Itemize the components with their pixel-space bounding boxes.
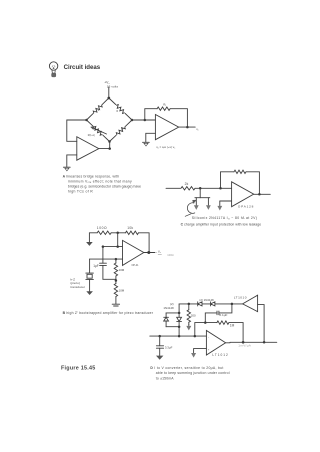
label hi-Z piezo transducer <box>70 277 85 289</box>
wire input rail circuit D <box>150 335 207 337</box>
svg-text:C charge amplifier input prot: C charge amplifier input protection with… <box>181 222 262 226</box>
svg-text:LT1010: LT1010 <box>234 295 247 299</box>
resistor 10k <box>126 231 139 234</box>
junction buffer input on output <box>263 341 266 344</box>
junction noninverting resistor top <box>115 258 118 261</box>
capacitor bottom wire to divider mid <box>103 265 116 279</box>
lightbulb icon <box>49 62 57 77</box>
resistor Rf feedback U2 <box>145 107 188 127</box>
resistor 10M lower <box>114 281 117 304</box>
junction bootstrap mid <box>115 279 118 282</box>
wire top rail <box>179 303 197 305</box>
wire clamp top bar <box>166 312 179 314</box>
label (2) 1N4148 clamp <box>163 302 174 310</box>
svg-text:10M: 10M <box>119 288 125 292</box>
JFET clamp bar <box>195 197 210 199</box>
junction feedback on output <box>242 341 245 344</box>
ground arrow U5 <box>191 353 196 358</box>
annotation curved arrow <box>187 200 197 213</box>
svg-text:2k: 2k <box>185 182 189 186</box>
junction clamp diodes <box>178 335 181 338</box>
wire bridge left to op-amp U1 inverting input <box>67 120 87 141</box>
caption A <box>63 174 142 193</box>
svg-text:1μF: 1μF <box>93 264 99 268</box>
junction inverting node <box>116 245 119 248</box>
wire noninverting line <box>90 258 123 260</box>
svg-text:B high Z′ bootstrapped amplif: B high Z′ bootstrapped amplifier for pie… <box>63 311 154 315</box>
wire summing junction to node F <box>195 323 206 337</box>
svg-text:OP-41: OP-41 <box>132 264 140 267</box>
junction 0.1uF top <box>231 303 234 306</box>
wire clamp to rails <box>178 304 180 336</box>
wire U5 noninverting to ground <box>194 349 207 353</box>
JFET right leg to ground <box>206 198 211 210</box>
svg-text:to ±150mA: to ±150mA <box>156 376 174 380</box>
JFET left leg to ground <box>194 198 199 210</box>
piezo transducer X1 <box>86 273 94 279</box>
wire U2 noninverting input to ground <box>146 133 156 142</box>
junction cap 3.3uF <box>158 335 161 338</box>
svg-text:LT1012: LT1012 <box>212 353 228 357</box>
svg-text:0.1μF: 0.1μF <box>219 313 227 317</box>
junction U3 output <box>258 193 261 196</box>
resistor 200 <box>187 304 190 325</box>
svg-text:transducer: transducer <box>70 285 85 289</box>
svg-text:R(1+x): R(1+x) <box>88 135 95 137</box>
wire U4 output <box>144 252 155 254</box>
capacitor 0.1uF <box>205 304 232 323</box>
op-amp U5 LT1012 <box>206 331 225 356</box>
ground arrow 200 <box>186 325 191 331</box>
svg-text:3.3μF: 3.3μF <box>165 346 173 350</box>
svg-text:1M: 1M <box>230 323 235 327</box>
ground arrow U3 input <box>217 201 222 211</box>
wire divider tap to U4 inverting input <box>117 233 119 247</box>
wire 10k to output node <box>139 233 150 253</box>
junction U4 output <box>147 251 150 254</box>
junction feedback node F <box>204 321 207 324</box>
svg-text:200: 200 <box>191 314 196 318</box>
op-amp U2 <box>155 115 178 140</box>
svg-text:high TCs of R: high TCs of R <box>68 189 93 193</box>
wire +Vs to bridge top <box>108 87 110 98</box>
wire bridge right to op-amp U2 inverting input <box>132 119 155 121</box>
wire U3 noninverting to ground <box>220 200 232 202</box>
label gain formula <box>156 145 175 150</box>
resistor 1M <box>205 321 243 342</box>
junction U2 output feedback <box>186 126 189 129</box>
ground top-left solid <box>86 242 93 246</box>
protection JFETs Q1 Q2 gate wire <box>199 188 201 197</box>
bridge arm resistor R lower-right <box>110 120 133 142</box>
op-amp U4 OP-41 <box>123 240 144 265</box>
node bridge left <box>85 119 88 122</box>
svg-text:100Ω: 100Ω <box>97 226 107 230</box>
svg-text:10M: 10M <box>119 268 125 272</box>
wire noninverting to piezo <box>89 259 91 273</box>
node +Vs supply label <box>104 80 118 88</box>
bridge arm resistor R top-left <box>87 98 109 120</box>
resistor 10M upper <box>114 259 117 280</box>
svg-text:Figure 15.45: Figure 15.45 <box>61 365 95 371</box>
strain gauge arrow <box>90 126 106 134</box>
svg-text:vo: vo <box>196 128 198 132</box>
wire U2 output Vo <box>179 126 196 128</box>
junction U1 output <box>108 147 111 150</box>
svg-text:1mV/μA: 1mV/μA <box>238 344 252 348</box>
wire U1 output to bridge bottom <box>99 142 110 149</box>
wire top-left to ground circuit B <box>89 233 97 242</box>
capacitor 1uF top wire <box>102 247 104 264</box>
ground cap solid <box>156 356 163 360</box>
junction clamp bottom <box>178 325 181 328</box>
junction U2 inverting node <box>144 119 147 122</box>
svg-text:Circuit ideas: Circuit ideas <box>64 64 101 71</box>
junction feedback node <box>219 187 222 190</box>
wire U3 output <box>254 193 271 195</box>
resistor 2k <box>181 187 195 190</box>
svg-text:bridges (e.g. semiconductor st: bridges (e.g. semiconductor strain gauge… <box>68 184 141 188</box>
junction cap top <box>102 245 105 248</box>
series diode D4 1N4148 <box>211 302 215 306</box>
wire to U3 inverting input <box>195 187 232 189</box>
node bridge right <box>131 119 134 122</box>
wire series diodes to buffer <box>215 303 243 305</box>
junction clamp top <box>178 312 181 315</box>
junction 200 resistor top <box>188 303 191 306</box>
node bridge top <box>107 97 110 100</box>
wire inverting line <box>103 246 123 248</box>
wire between divider resistors <box>111 232 126 234</box>
svg-text:vo = Rf/R (x/4) vs: vo = Rf/R (x/4) vs <box>156 145 175 150</box>
bridge arm strain gauge R(1+x) lower-left <box>87 120 110 142</box>
wire clamp bottom bar <box>166 326 179 328</box>
svg-text:-: - <box>208 335 209 339</box>
svg-text:OPA128: OPA128 <box>238 204 254 208</box>
svg-text:A linearises bridge response,: A linearises bridge response, with <box>63 174 120 178</box>
junction summing <box>194 335 197 338</box>
op-amp U3 OPA128 <box>232 182 254 207</box>
ground U2 <box>143 142 150 146</box>
wire U1 noninverting input to ground <box>67 155 77 167</box>
resistor 1000 <box>97 231 111 234</box>
leader line to Siliconix note <box>185 214 191 217</box>
svg-text:D I to V converter, sensitive: D I to V converter, sensitive to 20μA, b… <box>150 366 223 370</box>
svg-text:100Ω: 100Ω <box>167 253 173 257</box>
ground piezo solid <box>86 291 93 295</box>
wire U5 output <box>226 341 277 344</box>
wire LT1010 input from output line <box>258 305 265 343</box>
svg-text:(2) 1N4148: (2) 1N4148 <box>199 298 214 302</box>
node bridge bottom <box>108 140 111 143</box>
svg-text:able to keep summing junction: able to keep summing junction under cont… <box>156 371 230 375</box>
svg-text:minimum VCM effect; note that: minimum VCM effect; note that many <box>68 179 132 184</box>
wire piezo to ground <box>89 279 91 291</box>
capacitor 1uF plates <box>100 263 107 265</box>
ground divider bottom <box>112 304 119 306</box>
wire between series diodes <box>202 303 211 305</box>
svg-text:1N4148: 1N4148 <box>163 306 174 310</box>
junction gate node <box>199 187 202 190</box>
feedback resistor circuit C <box>221 170 260 194</box>
op-amp U1 <box>77 137 99 161</box>
clamp diode D1 1N4148 <box>164 313 169 327</box>
clamp diode D2 1N4148 <box>177 313 182 327</box>
capacitor 3.3uF <box>156 336 163 356</box>
svg-text:10k: 10k <box>127 226 133 230</box>
buffer U6 LT1010 <box>243 295 258 311</box>
wire input circuit C <box>166 187 181 189</box>
svg-text:Siliconix 2N4117A IG ~ 80 fA a: Siliconix 2N4117A IG ~ 80 fA at 2V) <box>192 216 257 221</box>
series diode D3 1N4148 <box>198 302 202 306</box>
junction divider top <box>116 232 119 235</box>
label Vo underline mark <box>158 253 161 255</box>
bridge arm resistor R top-right <box>109 98 132 120</box>
ground U1 <box>63 167 70 171</box>
caption D <box>150 366 229 380</box>
